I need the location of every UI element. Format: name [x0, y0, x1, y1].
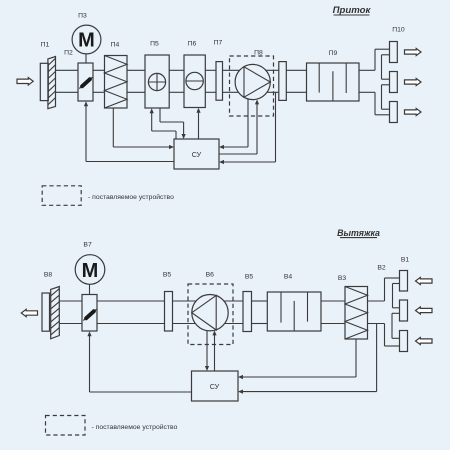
svg-text:М: М: [82, 260, 99, 282]
flow arrow out top: [405, 48, 422, 55]
flexible connector В5 (left): [165, 292, 173, 332]
svg-text:- поставляемое устройство: - поставляемое устройство: [92, 423, 178, 431]
wire: СУ to exhaust damper: [87, 331, 191, 392]
label В5 (first connector): [163, 272, 172, 279]
fan unit П8 (dashed supplied boundary): [230, 56, 274, 116]
wire: СУ to damper П2: [84, 101, 174, 161]
title underline Вытяжка: [340, 237, 377, 239]
exhaust damper: [82, 295, 97, 332]
wire: exhaust duct top line segments: [59, 300, 384, 302]
cooler П6 (-): [184, 55, 205, 108]
wire: fan П8 sensor to СУ: [219, 99, 248, 149]
svg-text:П3: П3: [78, 13, 87, 20]
label П1: [41, 42, 50, 49]
label В8: [44, 272, 53, 279]
svg-text:В3: В3: [338, 275, 347, 282]
svg-text:П4: П4: [111, 42, 120, 49]
label П9: [329, 50, 338, 57]
flow arrow out middle: [405, 78, 422, 85]
label П3: [78, 13, 87, 20]
label П10: [392, 27, 405, 34]
wire: exhaust collection branch В2/В1: [385, 278, 400, 346]
svg-text:СУ: СУ: [210, 382, 220, 391]
svg-text:В4: В4: [284, 274, 293, 281]
svg-text:П10: П10: [392, 27, 405, 34]
title underline Приток: [334, 14, 370, 16]
flow arrow inlet (supply): [17, 78, 33, 85]
flexible connector after fan: [279, 62, 287, 101]
wire: duct sensor tap to СУ: [219, 92, 276, 164]
exhaust grille В8: [42, 287, 59, 339]
wire: П5 sensor to СУ: [160, 108, 186, 139]
legend dashed box (exhaust): [46, 416, 86, 436]
label В3: [338, 275, 347, 282]
control unit СУ (exhaust): [192, 371, 239, 401]
flow arrow outlet (exhaust): [21, 309, 37, 316]
wire: motor stem to exhaust damper: [89, 284, 91, 294]
label П7: [214, 40, 223, 47]
wire: СУ to cooler П6: [196, 108, 200, 139]
label В7: [83, 242, 92, 249]
label В6: [206, 272, 215, 279]
svg-text:СУ: СУ: [192, 150, 202, 159]
wire: П4 sensor to СУ: [113, 108, 174, 149]
legend text (supply): [88, 193, 174, 201]
label В5 (second connector): [245, 274, 254, 281]
supply diffuser П10 middle: [390, 72, 398, 93]
svg-text:В8: В8: [44, 272, 53, 279]
wire: duct В2 sensor tap to СУ: [238, 324, 377, 394]
silencer П9: [307, 63, 360, 101]
svg-text:В1: В1: [401, 257, 410, 264]
wire: СУ to fan П8: [219, 99, 259, 154]
intake grille П1: [40, 57, 55, 109]
wire: exhaust duct bottom line segments: [59, 323, 384, 325]
label П2: [64, 50, 73, 57]
heater П5 (+): [145, 55, 169, 108]
silencer В4: [267, 292, 321, 331]
label В2: [377, 265, 386, 272]
svg-text:М: М: [78, 30, 95, 52]
damper П2: [78, 63, 93, 101]
motor П3 (M): [72, 25, 101, 54]
wire: СУ to heater П5: [150, 108, 176, 139]
supply diffuser П10 top: [390, 42, 398, 63]
svg-text:П2: П2: [64, 50, 73, 57]
fan unit В6 (dashed supplied boundary): [188, 284, 233, 345]
svg-text:Вытяжка: Вытяжка: [337, 228, 380, 238]
exhaust grille В1 bottom: [400, 331, 408, 352]
label П6: [188, 41, 197, 48]
motor В7 (M): [75, 255, 105, 285]
svg-text:П7: П7: [214, 40, 223, 47]
svg-text:В5: В5: [163, 272, 172, 279]
fan В6 impeller: [192, 295, 228, 331]
wire: supply duct bottom line segments: [56, 91, 376, 93]
control unit СУ (supply): [174, 139, 219, 169]
svg-text:В7: В7: [83, 242, 92, 249]
svg-text:В6: В6: [206, 272, 215, 279]
legend dashed box (supply): [42, 186, 81, 206]
wire: СУ to fan В6: [212, 330, 216, 371]
svg-text:П6: П6: [188, 41, 197, 48]
exhaust grille В1 top: [400, 271, 408, 292]
svg-text:В2: В2: [377, 265, 386, 272]
flow arrow in top (exhaust): [416, 277, 433, 284]
svg-text:П9: П9: [329, 50, 338, 57]
wire: motor stem to damper П2: [85, 54, 87, 63]
label П4: [111, 42, 120, 49]
svg-text:- поставляемое устройство: - поставляемое устройство: [88, 193, 174, 201]
label В1: [401, 257, 410, 264]
flow arrow in bottom (exhaust): [416, 337, 433, 344]
wire: fan В6 sensor to СУ: [205, 331, 209, 371]
filter В3: [345, 287, 368, 340]
label В4: [284, 274, 293, 281]
fan П8 impeller: [235, 64, 270, 99]
wire: supply distribution branch to П10: [375, 49, 390, 115]
flow arrow in middle (exhaust): [416, 307, 433, 314]
filter П4: [105, 56, 128, 109]
flexible connector В5 (right): [243, 292, 252, 332]
label П8: [254, 50, 263, 57]
wire: filter В3 sensor to СУ: [238, 339, 356, 379]
wire: supply duct top line segments: [56, 69, 376, 71]
flow arrow out bottom: [405, 108, 422, 115]
svg-text:П1: П1: [41, 42, 50, 49]
svg-text:П5: П5: [150, 41, 159, 48]
svg-text:В5: В5: [245, 274, 254, 281]
exhaust grille В1 middle: [400, 300, 408, 321]
supply diffuser П10 bottom: [390, 102, 398, 123]
legend text (exhaust): [92, 423, 178, 431]
flexible connector П7: [216, 62, 223, 101]
label П5: [150, 41, 159, 48]
